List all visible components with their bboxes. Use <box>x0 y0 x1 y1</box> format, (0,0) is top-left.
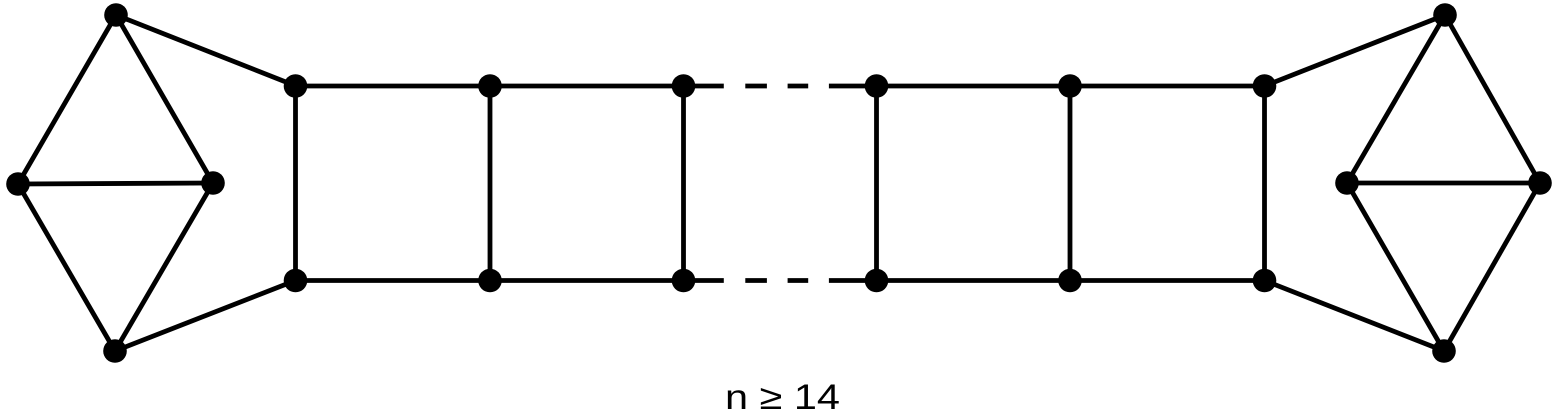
wire edge A3-A4 (left diamond mid to bottom) <box>115 183 213 351</box>
wire ladder rung T6-B6 <box>1262 86 1267 281</box>
wire edge A1-A3 (left diamond top to mid) <box>116 15 213 183</box>
node B5 ladder bottom 5 <box>1058 269 1082 293</box>
wire ladder bottom rail B2-B3 <box>490 278 684 283</box>
wire ladder rung T2-B2 <box>488 86 493 281</box>
node T4 ladder top 4 <box>865 74 889 98</box>
node B4 ladder bottom 4 <box>865 269 889 293</box>
wire ladder bottom rail B1-B2 <box>296 278 491 283</box>
node C4 right diamond bottom vertex <box>1432 339 1456 363</box>
wire edge A4-B1L (left diamond bottom to ladder) <box>115 281 296 352</box>
wire ladder top rail T4-T5 <box>877 84 1071 89</box>
wire ladder top rail T5-T6 <box>1070 84 1265 89</box>
wire ladder rung T3-B3 <box>681 86 686 281</box>
wire edge A2-A3 (left diamond horizontal) <box>18 183 213 184</box>
wire edge A1-T1 (left diamond top to ladder) <box>116 15 296 86</box>
wire edge C3-C2 (right diamond horizontal) <box>1347 181 1540 186</box>
node A4 left diamond bottom vertex <box>103 339 127 363</box>
node T5 ladder top 5 <box>1058 74 1082 98</box>
node A2 left diamond left vertex <box>6 172 30 196</box>
wire ladder rung T5-B5 <box>1068 86 1073 281</box>
wire ladder top rail T2-T3 <box>490 84 684 89</box>
node T6 ladder top 6 <box>1253 74 1277 98</box>
wire edge C2-C4 (right diamond right to bottom) <box>1444 183 1540 351</box>
wire dashed bottom rail B3-B4 <box>684 278 877 283</box>
node T2 ladder top 2 <box>478 74 502 98</box>
wire ladder top rail T1-T2 <box>296 84 491 89</box>
node B6 ladder bottom 6 <box>1253 269 1277 293</box>
wire edge A2-A4 (left diamond left to bottom) <box>18 184 115 351</box>
wire edge B6-C4 (ladder to right diamond bottom) <box>1265 281 1445 352</box>
wire ladder bottom rail B5-B6 <box>1070 278 1265 283</box>
wire ladder rung T4-B4 <box>874 86 879 281</box>
wire edge T6-C1 (ladder to right diamond top) <box>1265 15 1446 86</box>
wire edge C3-C4 (right diamond mid to bottom) <box>1347 183 1444 351</box>
node C1 right diamond top vertex <box>1433 3 1457 27</box>
node B1 ladder bottom 1 <box>284 269 308 293</box>
wire ladder rung T1-B1 <box>293 86 298 281</box>
node B3 ladder bottom 3 <box>672 269 696 293</box>
wire edge C1-C2 (right diamond top to right) <box>1445 15 1540 183</box>
node T3 ladder top 3 <box>672 74 696 98</box>
wire dashed top rail T3-T4 <box>684 84 877 89</box>
wire edge A1-A2 (left diamond top to left) <box>18 15 116 184</box>
svg-text:n ≥ 14: n ≥ 14 <box>725 378 840 417</box>
wire ladder bottom rail B4-B5 <box>877 278 1071 283</box>
wire edge C1-C3 (right diamond top to mid) <box>1347 15 1445 183</box>
node C3 right diamond mid vertex <box>1335 171 1359 195</box>
node T1 ladder top 1 <box>284 74 308 98</box>
node A1 left diamond top vertex <box>104 3 128 27</box>
node A3 left diamond mid vertex <box>201 171 225 195</box>
node B2 ladder bottom 2 <box>478 269 502 293</box>
node C2 right diamond right vertex <box>1528 171 1552 195</box>
